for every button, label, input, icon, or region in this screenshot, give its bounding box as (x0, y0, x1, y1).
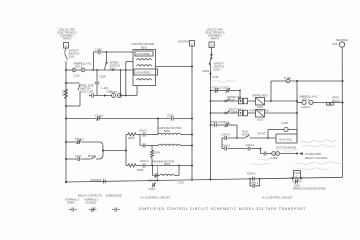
svg-text:LIFT SOLENOID: LIFT SOLENOID (276, 146, 296, 150)
svg-text:R204: R204 (154, 151, 161, 155)
svg-text:K203: K203 (149, 187, 156, 191)
svg-text:K203-2: K203-2 (140, 159, 149, 163)
svg-text:C208: C208 (99, 74, 106, 78)
svg-text:MODE B: MODE B (91, 178, 102, 182)
svg-text:B202: B202 (164, 129, 171, 133)
svg-text:NEUTRAL: NEUTRAL (178, 39, 191, 43)
svg-text:MODE: MODE (88, 154, 96, 158)
svg-text:FUSE: FUSE (284, 76, 291, 80)
svg-text:RELAY CONTACTS: RELAY CONTACTS (78, 194, 102, 198)
svg-text:K204-2: K204-2 (222, 143, 231, 147)
svg-text:S204: S204 (214, 67, 221, 71)
svg-text:K202: K202 (257, 118, 264, 122)
svg-text:INTLK: INTLK (75, 65, 83, 69)
svg-text:MODE: MODE (242, 132, 250, 136)
svg-text:HIGH SPEED: HIGH SPEED (136, 72, 151, 75)
svg-text:PARTS: PARTS (211, 37, 220, 41)
svg-text:K201-2 K202-1: K201-2 K202-1 (212, 86, 231, 90)
svg-text:S203: S203 (110, 67, 117, 71)
svg-text:S206: S206 (231, 110, 238, 114)
svg-text:C205: C205 (87, 90, 94, 94)
svg-text:SIMPLIFIED CONTROL CIRCUIT SCH: SIMPLIFIED CONTROL CIRCUIT SCHEMATIC MOD… (139, 207, 307, 211)
svg-text:TO RECORD: TO RECORD (305, 152, 321, 156)
svg-text:PIVOT: PIVOT (258, 131, 266, 135)
svg-text:K204-3: K204-3 (246, 143, 255, 147)
svg-text:C206: C206 (106, 90, 113, 94)
svg-text:K204-1: K204-1 (222, 132, 231, 136)
svg-text:E: E (73, 68, 75, 72)
svg-text:SPARE /RES: SPARE /RES (252, 94, 268, 98)
svg-text:A-C CONTROL CIRCUIT: A-C CONTROL CIRCUIT (140, 196, 170, 200)
svg-text:MODE: MODE (148, 178, 156, 182)
svg-text:ENERGIZED: ENERGIZED (106, 194, 122, 198)
svg-text:K201: K201 (257, 105, 264, 109)
svg-text:CLOSED: CLOSED (85, 201, 96, 205)
svg-text:G: G (285, 129, 287, 131)
svg-text:R202: R202 (62, 89, 66, 96)
svg-text:R205: R205 (137, 168, 144, 172)
svg-text:L-201: L-201 (102, 86, 109, 90)
svg-text:INTLK: INTLK (302, 98, 310, 102)
svg-text:K204-2: K204-2 (250, 180, 259, 184)
svg-text:FAST FWD SOL: FAST FWD SOL (250, 108, 270, 112)
svg-text:COIL: COIL (213, 75, 220, 79)
svg-text:K202-2 K203-1: K202-2 K203-1 (211, 120, 230, 124)
svg-text:RELAY CONTROL: RELAY CONTROL (305, 156, 328, 160)
svg-text:C201: C201 (75, 154, 82, 158)
svg-text:J-203: J-203 (177, 181, 184, 185)
svg-text:OPEN: OPEN (67, 201, 75, 205)
svg-text:C-207: C-207 (95, 48, 103, 52)
svg-text:B: B (210, 43, 212, 47)
svg-text:B201: B201 (141, 45, 148, 49)
svg-text:K202-2: K202-2 (75, 137, 84, 141)
svg-text:R203: R203 (128, 136, 135, 140)
svg-text:PLAY SOL: PLAY SOL (280, 137, 293, 141)
svg-text:LOW SPEED: LOW SPEED (136, 53, 150, 56)
svg-text:PARTS: PARTS (63, 37, 72, 41)
svg-text:K204-2: K204-2 (247, 172, 256, 176)
svg-text:S202: S202 (80, 90, 87, 94)
svg-text:MAIN: MAIN (203, 69, 210, 73)
svg-text:S208: S208 (294, 184, 300, 187)
svg-text:J-208: J-208 (281, 121, 288, 125)
svg-text:NEUTRAL: NEUTRAL (336, 38, 349, 42)
svg-text:S205: S205 (229, 98, 236, 102)
svg-text:K201-2: K201-2 (95, 114, 104, 118)
svg-text:K202-1: K202-1 (139, 129, 148, 133)
svg-text:A: A (65, 44, 67, 48)
svg-text:OFF: OFF (332, 42, 338, 46)
svg-text:RELAY: RELAY (332, 99, 341, 103)
svg-text:S203: S203 (167, 114, 174, 118)
svg-text:S201: S201 (69, 55, 76, 59)
svg-text:J-202-A: J-202-A (301, 105, 311, 109)
svg-text:D-C CONTROL CIRCUIT: D-C CONTROL CIRCUIT (262, 196, 293, 200)
svg-text:J-201: J-201 (73, 74, 80, 78)
svg-text:B203: B203 (164, 162, 171, 166)
